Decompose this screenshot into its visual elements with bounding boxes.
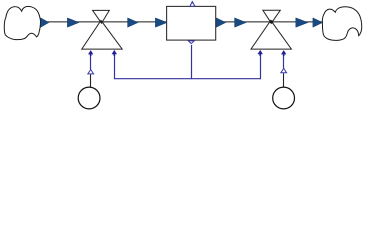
valve R2 top triangle: [263, 10, 280, 23]
valve R1 (inflow rate): [82, 10, 122, 49]
open arrow on stock top: [190, 2, 195, 7]
wire: left riser to valve R1: [114, 53, 116, 80]
pipe arrowhead 1 (at left cloud): [41, 18, 49, 27]
arrowhead into valve R1 (from level): [112, 50, 117, 56]
valve R2 (outflow rate): [251, 10, 291, 49]
arrowhead into valve R2 (from level): [258, 50, 263, 56]
flow pipe (left): cloud to stock: [41, 21, 167, 23]
link: left aux to valve R1: [90, 53, 92, 70]
stock (level box): [167, 6, 216, 40]
wire: left aux link lower part: [90, 74, 92, 87]
wire: right riser to valve R2: [260, 53, 262, 80]
pipe arrowhead 6 (mid stock-valve): [235, 18, 247, 27]
wire: stem from stock down: [191, 45, 193, 79]
cloud sink (right): [322, 7, 361, 41]
pipe arrowhead 8 (into right cloud): [313, 18, 323, 27]
valve R1 top triangle: [93, 10, 110, 23]
wire: horizontal feedback line: [114, 78, 261, 80]
arrowhead into valve R1 (from aux): [88, 50, 93, 56]
cloud source (left): [4, 6, 40, 39]
valve R1 bottom triangle: [82, 20, 122, 49]
pipe arrowhead 3 (mid valve-stock): [128, 18, 139, 27]
pipe arrowhead 5 (leaving stock): [216, 18, 225, 27]
pipe arrowhead 4 (into stock): [155, 18, 167, 27]
link: level feedback stem (stock bottom) open arrow down: [188, 41, 194, 44]
pipe arrowhead 7 (mid valve-cloud): [296, 18, 308, 27]
valve R2 center dot: [270, 20, 273, 23]
wire: right aux link lower part: [283, 73, 285, 87]
open arrowhead on right aux link: [281, 68, 287, 72]
pipe arrowhead 2 (mid cloud-valve): [67, 18, 79, 27]
link: right aux to valve R2: [283, 53, 285, 69]
arrowhead into valve R2 (from aux): [281, 50, 286, 56]
aux variable circle (right): [273, 87, 295, 109]
stock top arrow tip dot: [192, 2, 194, 4]
aux variable circle (left): [78, 87, 100, 109]
flow pipe (right): stock to cloud: [216, 21, 323, 23]
open arrowhead on left aux link: [88, 70, 94, 74]
valve R2 bottom triangle: [251, 20, 291, 49]
